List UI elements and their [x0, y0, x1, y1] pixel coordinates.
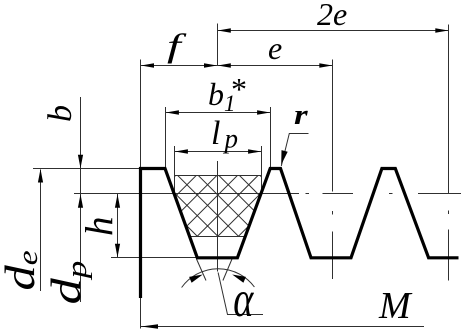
b and dp dimension line — [80, 97, 82, 302]
groove 1 centerline upper — [217, 24, 219, 66]
alpha arc arrow left — [189, 275, 203, 283]
f left extension line — [140, 60, 142, 169]
belt section bottom edge — [189, 236, 246, 238]
2e arrow right — [435, 28, 448, 32]
alpha arc arrow right — [232, 275, 246, 283]
f dimension line — [141, 65, 218, 67]
2e arrow left — [218, 28, 231, 32]
b1 dimension line — [166, 112, 271, 114]
groove bottom extension line — [111, 257, 198, 259]
groove 2 centerline — [332, 60, 334, 280]
pulley profile thick outline — [141, 169, 459, 299]
lp arrow right — [248, 149, 261, 153]
2e dimension line — [218, 30, 449, 32]
de arrow up — [38, 169, 43, 183]
svg-text:h: h — [79, 217, 122, 237]
lp arrow left — [175, 149, 188, 153]
r leader arrow — [281, 150, 288, 165]
belt section top edge — [175, 175, 262, 177]
f arrow left — [141, 63, 154, 67]
b arrow down — [78, 155, 83, 169]
e arrow left — [218, 63, 231, 67]
lp right extension line — [261, 146, 263, 194]
b1 arrow right — [257, 110, 270, 114]
e dimension line — [218, 65, 333, 67]
svg-text:M: M — [378, 285, 413, 327]
h arrow up — [115, 194, 120, 208]
de dimension line — [40, 170, 42, 292]
svg-text:b: b — [42, 105, 79, 122]
groove 3 centerline — [448, 25, 450, 281]
lp left extension line — [174, 146, 176, 194]
alpha flank extension left — [197, 259, 207, 281]
alpha arc — [182, 269, 255, 288]
f arrow right — [204, 63, 217, 67]
svg-text:e: e — [268, 30, 282, 66]
b1 arrow left — [166, 110, 179, 114]
svg-text:r: r — [294, 99, 308, 130]
h dimension line — [117, 194, 119, 258]
alpha leader — [218, 273, 263, 315]
h arrow down — [115, 244, 120, 257]
alpha flank extension right — [223, 259, 232, 281]
hatch cross lines of belt section — [111, 170, 325, 240]
r leader line — [281, 134, 308, 167]
dp arrow up — [78, 194, 83, 208]
svg-text:α: α — [233, 271, 254, 328]
b1 left extension line — [165, 107, 167, 172]
svg-text:*: * — [230, 71, 246, 107]
b1 right extension line — [270, 107, 272, 168]
M arrow left — [141, 324, 158, 329]
e arrow right — [319, 63, 332, 67]
M left extension line — [140, 298, 142, 329]
M dimension line — [141, 326, 425, 328]
lp dimension line — [175, 151, 262, 153]
de level line — [33, 168, 140, 170]
svg-text:2e: 2e — [317, 0, 347, 32]
dp pitch chain line — [74, 193, 461, 195]
groove 1 centerline lower — [217, 161, 219, 272]
